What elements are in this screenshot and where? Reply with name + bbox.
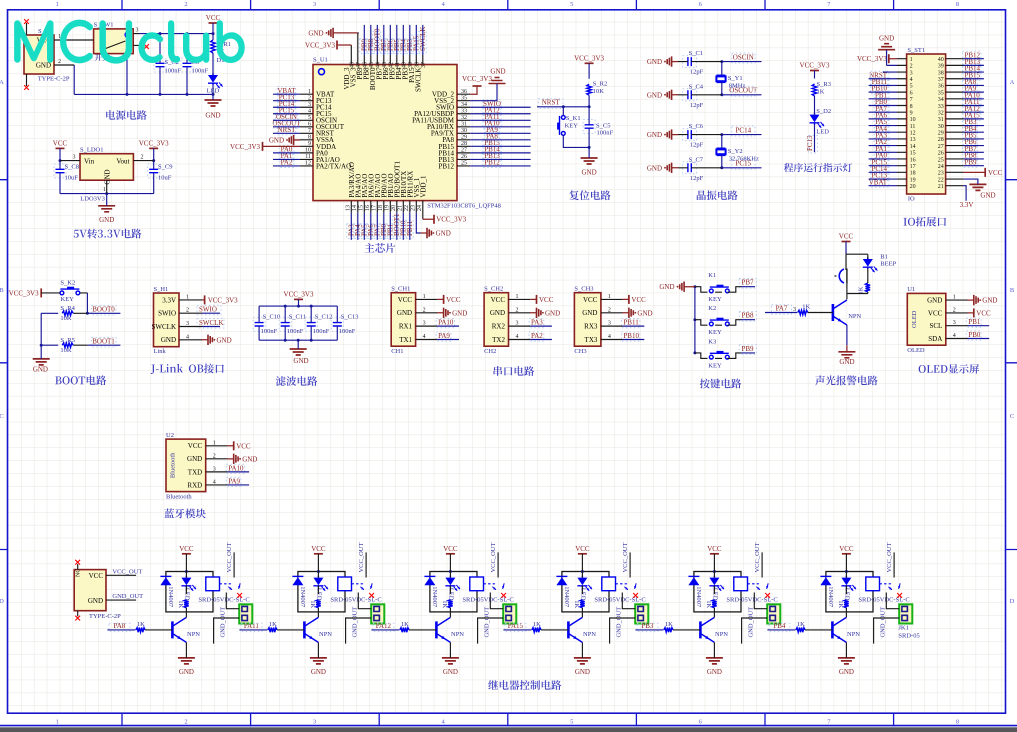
svg-text:S_C11: S_C11 (289, 314, 306, 321)
svg-text:NPN: NPN (715, 631, 728, 638)
svg-text:30: 30 (938, 124, 944, 130)
svg-text:100nF: 100nF (261, 328, 278, 335)
svg-text:100nF: 100nF (287, 328, 304, 335)
svg-text:VCC: VCC (988, 169, 1003, 177)
svg-text:1K: 1K (837, 600, 844, 608)
svg-text:S_ST1: S_ST1 (907, 47, 925, 54)
svg-text:PB10: PB10 (623, 332, 639, 340)
svg-text:A: A (0, 79, 4, 86)
svg-text:43: 43 (382, 62, 388, 68)
svg-text:GND: GND (582, 309, 597, 317)
svg-text:13: 13 (910, 137, 916, 143)
svg-text:1: 1 (56, 718, 59, 725)
svg-text:19: 19 (384, 205, 390, 211)
svg-text:S_D2: S_D2 (816, 108, 831, 115)
svg-text:PB8: PB8 (742, 312, 755, 320)
svg-text:10uF: 10uF (65, 175, 79, 182)
svg-text:SWCLK: SWCLK (414, 68, 422, 93)
svg-text:GND: GND (647, 164, 662, 172)
svg-text:3: 3 (313, 1, 316, 8)
svg-text:GND: GND (707, 668, 722, 676)
svg-text:VCC: VCC (575, 545, 590, 553)
svg-text:3: 3 (910, 70, 913, 76)
svg-text:1N4007: 1N4007 (695, 586, 702, 608)
svg-text:NPN: NPN (451, 631, 464, 638)
svg-text:29: 29 (938, 131, 944, 137)
svg-text:10: 10 (910, 117, 916, 123)
svg-text:NC: NC (76, 569, 82, 577)
svg-text:S_K1: S_K1 (566, 115, 581, 122)
svg-text:15: 15 (358, 205, 364, 211)
svg-text:LDO3V3: LDO3V3 (80, 196, 105, 203)
svg-text:3.3V: 3.3V (960, 201, 974, 209)
svg-text:GND: GND (293, 357, 308, 365)
svg-text:44: 44 (376, 62, 382, 68)
svg-text:VCC: VCC (188, 442, 203, 450)
svg-text:28: 28 (938, 137, 944, 143)
svg-text:10K: 10K (593, 88, 605, 95)
svg-text:SWCLK: SWCLK (199, 319, 224, 327)
svg-text:39: 39 (408, 62, 414, 68)
svg-text:8: 8 (956, 718, 959, 725)
svg-text:100nF: 100nF (165, 68, 182, 75)
svg-text:1K: 1K (573, 600, 580, 608)
svg-text:9: 9 (910, 110, 913, 116)
svg-text:TXD: TXD (188, 468, 202, 476)
svg-text:PA9: PA9 (228, 477, 240, 485)
svg-text:VCC: VCC (707, 545, 722, 553)
svg-text:OSCIN: OSCIN (733, 53, 754, 61)
svg-text:OLED: OLED (911, 310, 918, 328)
svg-text:KEY: KEY (565, 122, 579, 129)
svg-text:LED: LED (448, 588, 455, 601)
svg-text:K1: K1 (708, 272, 716, 279)
svg-text:GND: GND (490, 309, 505, 317)
svg-text:S_R5: S_R5 (60, 337, 74, 344)
svg-text:18: 18 (378, 205, 384, 211)
svg-text:1N4007: 1N4007 (431, 586, 438, 608)
svg-text:3: 3 (136, 28, 139, 34)
svg-text:1K: 1K (269, 621, 277, 628)
svg-text:21: 21 (397, 205, 403, 211)
svg-text:23: 23 (938, 171, 944, 177)
svg-text:JK1: JK1 (898, 625, 908, 632)
svg-text:8MHz: 8MHz (729, 83, 746, 90)
svg-text:Bluetooth: Bluetooth (166, 493, 192, 500)
svg-text:TYPE-C-2P: TYPE-C-2P (38, 76, 70, 83)
svg-text:SRD-05VDC-SL-C: SRD-05VDC-SL-C (330, 597, 381, 604)
svg-text:GND_OUT: GND_OUT (484, 607, 491, 638)
svg-text:GND: GND (161, 336, 176, 344)
svg-text:GND: GND (436, 229, 451, 237)
svg-text:PB0: PB0 (968, 331, 981, 339)
svg-text:41: 41 (395, 62, 401, 68)
svg-text:21: 21 (938, 184, 944, 190)
svg-text:1K: 1K (309, 600, 316, 608)
svg-text:NPN: NPN (187, 631, 200, 638)
svg-text:PB11: PB11 (623, 319, 639, 327)
svg-text:42: 42 (389, 62, 395, 68)
svg-text:PB3: PB3 (641, 622, 654, 630)
svg-text:NPN: NPN (847, 631, 860, 638)
svg-text:1K: 1K (533, 621, 541, 628)
svg-text:GND: GND (879, 35, 894, 43)
svg-text:1: 1 (56, 1, 59, 8)
svg-text:27: 27 (938, 144, 944, 150)
svg-text:GND: GND (242, 455, 257, 463)
svg-text:SWIO: SWIO (199, 306, 217, 314)
svg-text:8: 8 (956, 1, 959, 8)
svg-text:Bluetooth: Bluetooth (170, 452, 177, 478)
svg-text:GND: GND (582, 169, 597, 177)
svg-text:10K: 10K (60, 315, 72, 322)
svg-text:C: C (1010, 413, 1014, 420)
svg-text:1K: 1K (705, 600, 712, 608)
svg-text:PB7: PB7 (742, 279, 755, 287)
svg-text:S_R4: S_R4 (60, 305, 75, 312)
svg-text:1K: 1K (401, 621, 409, 628)
svg-text:LED: LED (316, 588, 323, 601)
svg-text:1: 1 (103, 187, 106, 193)
svg-text:GND: GND (452, 309, 467, 317)
svg-text:35: 35 (938, 90, 944, 96)
svg-text:19: 19 (910, 177, 916, 183)
svg-text:KEY: KEY (708, 329, 722, 336)
svg-text:S_C12: S_C12 (315, 314, 333, 321)
svg-text:VCC: VCC (179, 545, 194, 553)
svg-text:1N4007: 1N4007 (299, 586, 306, 608)
svg-text:14: 14 (910, 144, 916, 150)
svg-text:SDA: SDA (928, 335, 942, 343)
svg-text:GND_OUT: GND_OUT (220, 607, 227, 638)
svg-text:SRD-05: SRD-05 (898, 633, 919, 640)
svg-text:12: 12 (910, 131, 916, 137)
svg-text:S_Y1: S_Y1 (728, 75, 743, 82)
svg-text:46: 46 (363, 62, 369, 68)
svg-text:12pF: 12pF (690, 175, 704, 182)
svg-text:1K: 1K (665, 621, 673, 628)
svg-text:23: 23 (410, 205, 416, 211)
svg-text:S_C1: S_C1 (689, 50, 703, 57)
svg-text:VCC: VCC (446, 296, 461, 304)
svg-text:RX1: RX1 (399, 323, 413, 331)
svg-text:GND: GND (308, 29, 323, 37)
svg-text:22: 22 (938, 177, 944, 183)
svg-text:1K: 1K (137, 621, 145, 628)
svg-text:KEY: KEY (61, 296, 75, 303)
svg-text:TYPE-C-2P: TYPE-C-2P (89, 613, 121, 620)
svg-text:GND: GND (217, 336, 232, 344)
svg-text:38: 38 (415, 62, 421, 68)
svg-text:38: 38 (938, 70, 944, 76)
svg-text:VCC_3V3: VCC_3V3 (574, 54, 604, 62)
svg-text:S_C10: S_C10 (263, 314, 281, 321)
svg-text:GND: GND (927, 297, 942, 305)
svg-text:NPN: NPN (319, 631, 332, 638)
svg-text:40: 40 (402, 62, 408, 68)
svg-text:VCC: VCC (539, 296, 554, 304)
svg-text:D: D (0, 598, 4, 605)
svg-text:GND: GND (490, 68, 505, 76)
svg-text:S_R3: S_R3 (817, 81, 831, 88)
svg-text:VCC: VCC (976, 309, 991, 317)
svg-text:A: A (1010, 79, 1015, 86)
svg-text:B: B (1010, 287, 1015, 294)
svg-text:GND_OUT: GND_OUT (112, 593, 143, 600)
svg-text:VCC: VCC (839, 545, 854, 553)
svg-text:SRD-05VDC-SL-C: SRD-05VDC-SL-C (594, 597, 645, 604)
svg-text:RX2: RX2 (492, 323, 506, 331)
svg-text:PA2/TX/AO: PA2/TX/AO (316, 162, 351, 170)
svg-text:VCC: VCC (398, 296, 413, 304)
svg-text:SRD-05VDC-SL-C: SRD-05VDC-SL-C (726, 597, 777, 604)
svg-text:S_C13: S_C13 (341, 314, 359, 321)
svg-text:12pF: 12pF (690, 69, 704, 76)
svg-text:5: 5 (910, 84, 913, 90)
svg-text:36: 36 (938, 84, 944, 90)
svg-text:K2: K2 (708, 305, 716, 312)
svg-text:GND: GND (980, 192, 995, 200)
svg-text:LED: LED (580, 588, 587, 601)
svg-text:VCC: VCC (53, 139, 68, 147)
svg-text:47: 47 (356, 62, 362, 68)
svg-text:20: 20 (391, 205, 397, 211)
svg-text:OLED: OLED (907, 347, 925, 354)
svg-text:3.3V: 3.3V (162, 296, 176, 304)
svg-text:S_LDO1: S_LDO1 (80, 147, 103, 154)
svg-text:B1: B1 (880, 254, 888, 261)
svg-text:Vout: Vout (116, 157, 129, 165)
svg-text:GND: GND (205, 112, 220, 120)
svg-text:RX3: RX3 (584, 323, 598, 331)
svg-text:100nF: 100nF (313, 328, 330, 335)
svg-text:LED: LED (184, 588, 191, 601)
svg-text:VCC_3V3: VCC_3V3 (462, 75, 492, 83)
svg-text:PA9: PA9 (438, 332, 450, 340)
svg-text:PB9: PB9 (742, 345, 755, 353)
svg-text:GND: GND (839, 358, 854, 366)
svg-text:2: 2 (141, 155, 144, 161)
svg-text:GND: GND (637, 309, 652, 317)
svg-text:2: 2 (184, 1, 187, 8)
svg-text:8: 8 (910, 104, 913, 110)
svg-text:VCC_3V3: VCC_3V3 (9, 289, 39, 297)
svg-text:2: 2 (184, 718, 187, 725)
svg-text:VCC_3V3: VCC_3V3 (305, 41, 335, 49)
svg-text:PA3: PA3 (531, 319, 543, 327)
svg-text:SWCLK: SWCLK (152, 323, 177, 331)
svg-text:25: 25 (938, 157, 944, 163)
svg-text:39: 39 (938, 64, 944, 70)
svg-text:13: 13 (345, 205, 351, 211)
svg-text:17: 17 (910, 164, 916, 170)
svg-text:LED: LED (712, 588, 719, 601)
svg-text:100nF: 100nF (339, 328, 356, 335)
svg-text:S_R2: S_R2 (593, 81, 607, 88)
svg-text:GND: GND (397, 309, 412, 317)
svg-text:5: 5 (570, 718, 573, 725)
svg-text:TX1: TX1 (399, 336, 412, 344)
svg-text:BOOT0: BOOT0 (92, 305, 115, 313)
svg-text:37: 37 (421, 62, 427, 68)
svg-text:26: 26 (938, 151, 944, 157)
svg-text:2: 2 (58, 59, 61, 65)
svg-text:KEY: KEY (708, 296, 722, 303)
svg-text:GND: GND (88, 597, 103, 605)
svg-text:1K: 1K (797, 621, 805, 628)
svg-text:31: 31 (938, 117, 944, 123)
svg-text:D: D (1010, 598, 1015, 605)
svg-text:1K: 1K (441, 600, 448, 608)
svg-text:37: 37 (938, 77, 944, 83)
svg-text:Link: Link (154, 348, 167, 355)
svg-text:7: 7 (910, 97, 913, 103)
svg-text:1K: 1K (802, 303, 810, 310)
svg-text:VCC: VCC (583, 296, 598, 304)
svg-text:BOOT1: BOOT1 (92, 337, 115, 345)
svg-text:12pF: 12pF (690, 142, 704, 149)
svg-text:1K: 1K (177, 600, 184, 608)
svg-text:VCC_OUT: VCC_OUT (622, 542, 629, 572)
svg-text:GND: GND (311, 668, 326, 676)
svg-text:TX2: TX2 (492, 336, 505, 344)
svg-text:VCC: VCC (443, 545, 458, 553)
svg-text:10K: 10K (60, 347, 72, 354)
svg-text:PB12: PB12 (438, 162, 454, 170)
svg-text:VCC_3V3: VCC_3V3 (436, 216, 466, 224)
svg-text:1: 1 (910, 57, 913, 63)
svg-text:VCC_OUT: VCC_OUT (490, 542, 497, 572)
svg-text:PA10: PA10 (438, 319, 454, 327)
svg-text:4: 4 (910, 77, 913, 83)
svg-text:KEY: KEY (708, 362, 722, 369)
svg-text:VCC_OUT: VCC_OUT (358, 542, 365, 572)
svg-text:SWIO: SWIO (158, 310, 176, 318)
svg-text:GND: GND (575, 668, 590, 676)
svg-text:VCC: VCC (491, 296, 506, 304)
svg-text:2: 2 (910, 64, 913, 70)
svg-text:VCC_OUT: VCC_OUT (112, 568, 142, 575)
svg-text:S_C5: S_C5 (596, 123, 610, 130)
svg-text:S_C9: S_C9 (158, 164, 172, 171)
svg-text:GND: GND (99, 216, 114, 224)
svg-text:VCC_3V3: VCC_3V3 (857, 55, 887, 63)
svg-text:SCL: SCL (929, 322, 942, 330)
svg-text:VCC: VCC (236, 442, 251, 450)
svg-text:RXD: RXD (187, 481, 202, 489)
svg-text:S_C7: S_C7 (689, 156, 704, 163)
svg-text:18: 18 (910, 171, 916, 177)
svg-text:STM32F103C8T6_LQFP48: STM32F103C8T6_LQFP48 (427, 203, 501, 210)
svg-text:VCC_3V3: VCC_3V3 (230, 143, 260, 151)
svg-text:VCC_3V3: VCC_3V3 (284, 290, 314, 298)
svg-text:16: 16 (910, 157, 916, 163)
svg-text:S_Y2: S_Y2 (728, 148, 743, 155)
svg-text:32: 32 (938, 110, 944, 116)
svg-text:3: 3 (73, 155, 76, 161)
svg-text:GND: GND (187, 455, 202, 463)
svg-text:PC14: PC14 (736, 126, 752, 134)
svg-text:IO: IO (908, 196, 915, 203)
svg-text:LED: LED (844, 588, 851, 601)
svg-text:S_C8: S_C8 (65, 164, 79, 171)
svg-text:GND: GND (33, 365, 48, 373)
svg-text:S_C6: S_C6 (689, 123, 704, 130)
svg-text:BEEP: BEEP (880, 261, 896, 268)
svg-text:GND: GND (647, 58, 662, 66)
svg-text:SRD-05VDC-SL-C: SRD-05VDC-SL-C (198, 597, 249, 604)
svg-text:LED: LED (816, 129, 829, 136)
svg-text:GND: GND (36, 62, 51, 70)
svg-text:22: 22 (404, 205, 410, 211)
svg-text:CH3: CH3 (574, 348, 586, 355)
svg-text:PA2: PA2 (531, 332, 543, 340)
svg-text:S_U1: S_U1 (313, 57, 328, 64)
svg-text:5: 5 (570, 1, 573, 8)
svg-text:S_K2: S_K2 (60, 279, 75, 286)
svg-text:SRD-05VDC-SL-C: SRD-05VDC-SL-C (462, 597, 513, 604)
svg-text:GND: GND (982, 297, 997, 305)
svg-text:GND_OUT: GND_OUT (880, 607, 887, 638)
svg-text:3: 3 (313, 718, 316, 725)
svg-text:VCC: VCC (631, 296, 646, 304)
svg-text:15: 15 (910, 151, 916, 157)
svg-text:GND: GND (659, 283, 674, 291)
svg-text:S_H1: S_H1 (154, 286, 169, 293)
svg-text:VCC: VCC (311, 545, 326, 553)
svg-text:16: 16 (365, 205, 371, 211)
svg-text:11: 11 (910, 124, 916, 130)
svg-text:S_CH1: S_CH1 (391, 286, 410, 293)
svg-text:GND: GND (269, 136, 284, 144)
svg-text:Vin: Vin (84, 157, 95, 165)
svg-text:VDD_1: VDD_1 (419, 175, 427, 198)
svg-text:GND: GND (647, 91, 662, 99)
svg-text:TX3: TX3 (585, 336, 598, 344)
svg-text:U1: U1 (907, 286, 915, 293)
svg-text:32.768KHz: 32.768KHz (729, 156, 759, 163)
svg-text:20: 20 (910, 184, 916, 190)
svg-text:K3: K3 (708, 338, 716, 345)
svg-text:34: 34 (938, 97, 944, 103)
svg-text:S_CH2: S_CH2 (484, 286, 503, 293)
svg-text:GND: GND (104, 169, 112, 184)
svg-text:GND_OUT: GND_OUT (352, 607, 359, 638)
svg-text:12pF: 12pF (690, 102, 704, 109)
svg-text:PA8: PA8 (113, 622, 125, 630)
svg-text:48: 48 (350, 62, 356, 68)
svg-text:NPN: NPN (583, 631, 596, 638)
svg-text:PA7: PA7 (776, 304, 788, 312)
svg-text:GND: GND (647, 131, 662, 139)
svg-text:6: 6 (910, 90, 913, 96)
svg-text:NRST: NRST (542, 99, 561, 107)
svg-text:VCC: VCC (928, 309, 943, 317)
svg-text:S_CH3: S_CH3 (574, 286, 593, 293)
svg-text:VCC: VCC (839, 233, 854, 241)
svg-text:GND_OUT: GND_OUT (616, 607, 623, 638)
svg-text:GND: GND (839, 668, 854, 676)
svg-text:GND: GND (443, 668, 458, 676)
svg-text:S_C4: S_C4 (689, 83, 704, 90)
svg-text:VCC_3V3: VCC_3V3 (800, 62, 830, 70)
svg-text:SRD-05VDC-SL-C: SRD-05VDC-SL-C (858, 597, 909, 604)
svg-text:VCC_3V3: VCC_3V3 (208, 296, 238, 304)
svg-text:17: 17 (371, 205, 377, 211)
svg-text:VCC_OUT: VCC_OUT (226, 542, 233, 572)
svg-text:33: 33 (938, 104, 944, 110)
svg-text:GND: GND (545, 309, 560, 317)
